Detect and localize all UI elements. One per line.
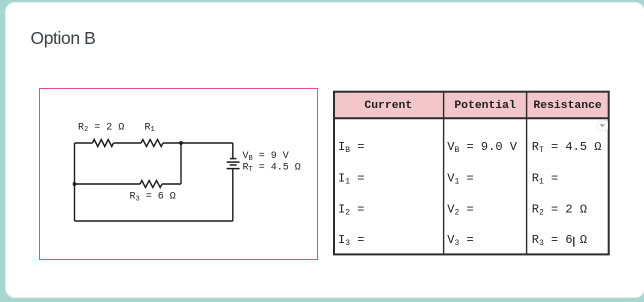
wire: middle branch right segment (162, 183, 181, 185)
svg-text:Current: Current (364, 100, 412, 112)
resistor R1 (141, 140, 163, 147)
table column separator 1 (443, 91, 445, 254)
svg-text:I3 =: I3 = (338, 233, 364, 248)
svg-text:V1 =: V1 = (447, 171, 473, 186)
table header separator (333, 117, 609, 119)
wire: junction vertical segment (180, 143, 182, 184)
wire: battery top lead (232, 143, 234, 158)
svg-text:VB = 9 V: VB = 9 V (243, 151, 289, 163)
dropdown icon (597, 121, 607, 131)
svg-text:R2 = 2 Ω: R2 = 2 Ω (532, 202, 587, 217)
svg-text:R3 = 6 Ω: R3 = 6 Ω (532, 233, 587, 248)
svg-text:V2 =: V2 = (447, 202, 473, 217)
svg-text:IB =: IB = (338, 140, 364, 155)
node A junction dot top (179, 141, 183, 145)
node B junction dot left (73, 182, 77, 186)
svg-text:R3 = 6 Ω: R3 = 6 Ω (130, 192, 176, 204)
circuit frame (pink box) (39, 88, 318, 260)
svg-text:Potential: Potential (454, 100, 516, 112)
wire: battery bottom lead (232, 169, 234, 221)
svg-text:RT = 4.5 Ω: RT = 4.5 Ω (532, 140, 602, 155)
svg-text:R1: R1 (145, 122, 155, 134)
resistor R2 (93, 140, 114, 147)
wire: left vertical branch (74, 143, 76, 221)
svg-text:R2 = 2 Ω: R2 = 2 Ω (78, 122, 124, 134)
wire: R1 to battery branch (163, 142, 233, 144)
wire: bottom branch (75, 220, 233, 222)
table outer border (334, 92, 609, 255)
table body text (338, 140, 601, 248)
svg-text:I2 =: I2 = (338, 202, 364, 217)
resistor R3 (140, 181, 162, 188)
wire: between R2 and R1 (114, 142, 142, 144)
svg-text:R1 =: R1 = (532, 171, 558, 186)
wire: middle branch left segment (75, 183, 141, 185)
battery VB plates (227, 159, 240, 169)
svg-text:I1 =: I1 = (338, 171, 364, 186)
svg-text:V3 =: V3 = (447, 233, 473, 248)
title Option B (31, 28, 96, 49)
svg-text:VB = 9.0 V: VB = 9.0 V (447, 140, 517, 155)
table header text (364, 100, 602, 112)
table header fill (333, 91, 609, 118)
svg-text:RT = 4.5 Ω: RT = 4.5 Ω (243, 162, 301, 174)
table column separator 2 (526, 91, 528, 254)
wire: top branch with resistors (75, 142, 93, 144)
svg-text:Resistance: Resistance (533, 100, 602, 112)
text cursor (573, 237, 575, 247)
